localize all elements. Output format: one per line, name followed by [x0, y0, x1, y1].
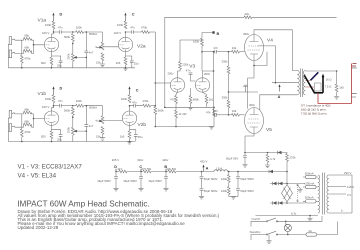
svg-text:Standby: Standby	[250, 230, 262, 234]
wire mix to V3 grid	[155, 82, 170, 84]
resistor 68k (jack1 grid)	[24, 37, 32, 40]
capacitor 25u (V2b cathode)	[134, 135, 138, 137]
tone stack node	[72, 31, 74, 33]
tube V1b	[44, 111, 58, 125]
svg-text:100k: 100k	[117, 23, 124, 27]
ground (node D cap)	[113, 188, 118, 191]
capacitor 16uF 500V (node C)	[140, 171, 142, 173]
svg-text:100k: 100k	[45, 97, 52, 101]
svg-text:+250mA: +250mA	[304, 181, 315, 185]
svg-text:4.7k: 4.7k	[270, 157, 276, 161]
svg-text:50µF 50V: 50µF 50V	[226, 157, 238, 161]
svg-text:420v: 420v	[162, 158, 169, 162]
ground (volume ch1)	[100, 64, 105, 67]
diode D4	[279, 201, 283, 204]
svg-text:270 5W: 270 5W	[142, 167, 152, 171]
capacitor 25u (V1a cathode)	[59, 61, 63, 63]
wire bias line	[245, 153, 287, 154]
resistor 470k (ch1 mix)	[142, 31, 150, 34]
svg-text:16µF 500V: 16µF 500V	[123, 179, 137, 183]
fuse 250mA (winding 2)	[306, 185, 317, 188]
svg-text:50µF 500V: 50µF 500V	[240, 189, 254, 193]
wire V4 cathode	[248, 52, 267, 109]
ground bus 2	[155, 126, 214, 128]
svg-text:0 V: 0 V	[347, 193, 351, 197]
svg-text:200 V: 200 V	[114, 31, 121, 35]
thick black jack tip contact	[322, 77, 324, 93]
capacitor 50uF 500V (A upper)	[201, 172, 203, 177]
capacitor 47n (V2a coupling)	[132, 30, 134, 34]
svg-text:68k: 68k	[25, 119, 30, 123]
mains wire row1	[251, 216, 322, 227]
wire V2b plate	[129, 106, 131, 111]
resistor 2k2 (V3 cathode right)	[203, 92, 207, 95]
resistor 1k5 (V2a cathode)	[124, 57, 127, 65]
wire wiper to V2a grid	[96, 46, 118, 47]
svg-text:220k: 220k	[182, 63, 189, 67]
svg-text:160k: 160k	[221, 177, 228, 181]
resistor 100k (V3 plate right)	[201, 38, 204, 46]
black jack terminal marks	[352, 68, 357, 97]
svg-text:310v: 310v	[137, 158, 144, 162]
wire V1a plate	[52, 32, 54, 37]
capacitor 47n (to V4 grid)	[202, 51, 215, 53]
diode D1	[273, 182, 277, 185]
svg-text:V1 - V3: ECC83/12AX7: V1 - V3: ECC83/12AX7	[18, 164, 83, 171]
wire tone tap vertical	[78, 32, 87, 68]
svg-text:470k: 470k	[24, 57, 31, 61]
svg-text:A: A	[278, 95, 281, 99]
ground (bus2)	[209, 127, 214, 130]
speaker tap wire red 16ohm	[305, 79, 310, 81]
PT secondary tap 230V	[329, 175, 352, 213]
wire mix to V1b grid	[32, 114, 45, 127]
wire V2a plate	[125, 32, 127, 37]
svg-text:10k 5W: 10k 5W	[167, 167, 177, 171]
svg-text:V4 - V5: EL34: V4 - V5: EL34	[18, 172, 57, 179]
svg-text:6,3v: 6,3v	[291, 211, 297, 215]
resistor 100k (V1b plate)	[52, 95, 55, 103]
svg-text:560k: 560k	[64, 35, 71, 39]
potentiometer 500k (volume ch1)	[102, 32, 104, 42]
resistor 330k (V5 grid leak)	[228, 114, 230, 116]
V2b cathode network	[130, 125, 136, 134]
svg-text:270k: 270k	[290, 156, 297, 160]
ground (NFB divider)	[334, 97, 339, 100]
PT secondary tap 0V	[329, 193, 346, 195]
svg-text:V2a: V2a	[137, 44, 146, 50]
svg-text:25u: 25u	[138, 135, 143, 139]
resistor 470k (input leak)	[20, 55, 23, 63]
switch (mains on/off)	[266, 221, 267, 222]
svg-text:470k: 470k	[142, 99, 149, 103]
svg-text:100k: 100k	[76, 25, 83, 29]
tube V1a	[44, 37, 58, 51]
input jack J2	[9, 50, 15, 58]
power transformer PT	[318, 173, 329, 215]
wire V5 cathode to bias	[245, 134, 254, 153]
svg-text:500mA: 500mA	[305, 171, 314, 175]
svg-text:47n: 47n	[186, 69, 191, 73]
resistor 10k (chain B-A)	[168, 170, 176, 173]
wire HT chain	[116, 171, 287, 173]
ground (V3 cathode bus)	[188, 107, 193, 110]
wire mix to V1a grid	[32, 40, 45, 53]
PT bottom tap	[329, 212, 352, 214]
ground (heater)	[307, 219, 312, 222]
svg-text:330k: 330k	[222, 60, 229, 64]
wire tone tap vertical ch2	[78, 106, 87, 142]
speaker tap wire red 8ohm	[305, 86, 314, 88]
svg-text:260v: 260v	[204, 72, 211, 76]
tone node ch2	[72, 105, 74, 107]
diode D3	[273, 201, 277, 204]
resistor 68k (jack4 grid)	[24, 123, 32, 126]
node D arrow channel1	[53, 15, 55, 21]
svg-text:1k5: 1k5	[339, 86, 344, 90]
output transformer OT primary	[297, 69, 305, 98]
svg-text:160k: 160k	[221, 189, 228, 193]
svg-text:50µF 500V: 50µF 500V	[204, 189, 218, 193]
diode D2	[279, 182, 283, 185]
svg-text:460v: 460v	[249, 103, 256, 107]
svg-text:4n7: 4n7	[89, 50, 94, 54]
svg-text:200v: 200v	[168, 72, 175, 76]
wire jack1 tip	[15, 40, 24, 55]
svg-text:IMPACT 60W Amp Head Schematic.: IMPACT 60W Amp Head Schematic.	[17, 200, 150, 209]
ground (bias resistor)	[265, 165, 270, 168]
node A arrow (screen supply)	[279, 87, 281, 92]
resistor 100k (treble series)	[76, 31, 84, 34]
svg-text:D: D	[60, 86, 63, 90]
potentiometer 500k (volume ch2)	[102, 106, 104, 116]
svg-text:250k: 250k	[67, 127, 71, 134]
capacitor 50uF 500V (main filter lower)	[236, 189, 240, 191]
node B tick	[165, 169, 167, 172]
svg-text:22k: 22k	[245, 12, 250, 16]
ground tick (bias reference)	[243, 85, 248, 92]
wire V4 screen	[258, 46, 276, 83]
capacitor 25u (V1b cathode)	[59, 135, 63, 137]
junction row2	[287, 234, 289, 236]
resistor 68k (jack3 grid)	[24, 111, 32, 114]
wire earth drop	[268, 235, 270, 241]
svg-text:470: 470	[170, 97, 175, 101]
ground (volume ch2)	[100, 138, 105, 141]
svg-text:C: C	[136, 89, 139, 93]
resistor 470 (V3 cathode left)	[176, 92, 178, 95]
resistor 220k (V3 plate left)	[179, 62, 182, 70]
tube V3 (right half)	[195, 78, 209, 92]
svg-text:470k: 470k	[24, 130, 31, 134]
capacitor 4n7 (tone ch2)	[84, 125, 88, 127]
thick navy selector bar	[311, 72, 319, 80]
wiper arrow (volume ch2)	[99, 120, 103, 122]
resistor 100k (V2b plate)	[128, 95, 131, 103]
capacitor 47n (to V5 grid)	[215, 113, 217, 117]
svg-text:68k: 68k	[25, 107, 30, 111]
capacitor 47n (V1b coupling)	[54, 105, 60, 107]
svg-text:47n: 47n	[213, 46, 218, 50]
wire OT secondary top tap	[305, 71, 336, 84]
fuse 500mA (HT winding)	[306, 175, 317, 178]
ground (node C cap)	[138, 188, 143, 191]
svg-text:A: A	[206, 167, 209, 171]
svg-text:160 V: 160 V	[42, 105, 49, 109]
node A arrow with 430V	[201, 171, 203, 173]
resistor 680k (V3 tail)	[189, 96, 192, 104]
svg-text:47n: 47n	[132, 100, 137, 104]
potentiometer 250k (tone ch2)	[71, 127, 74, 135]
wire OT centre tap to A	[272, 82, 297, 84]
resistor 100k (V1a plate)	[52, 21, 55, 29]
resistor 22k (feedback)	[244, 16, 252, 19]
svg-text:820: 820	[41, 135, 46, 139]
svg-text:4n7: 4n7	[89, 124, 94, 128]
resistor 470k (ch2 mix)	[143, 104, 151, 107]
svg-text:500kA: 500kA	[89, 32, 97, 36]
diode (bias rectifier)	[278, 151, 282, 154]
svg-text:68k: 68k	[25, 34, 30, 38]
resistor 27k (chain C-B)	[143, 170, 151, 173]
node junction V3 plate right	[201, 51, 203, 53]
svg-text:1k 1W: 1k 1W	[179, 112, 187, 116]
heater winding 6.3v	[256, 215, 318, 217]
svg-text:500kA: 500kA	[89, 106, 97, 110]
resistor 560k (tone shunt ch2)	[71, 107, 74, 115]
svg-text:2A: 2A	[309, 229, 313, 233]
node C arrow channel2	[129, 89, 131, 95]
svg-text:680k: 680k	[193, 97, 200, 101]
resistor 330k (V4 grid leak)	[228, 51, 230, 53]
svg-text:100k: 100k	[45, 23, 52, 27]
wire tone mid ch2	[72, 115, 74, 127]
junction lamp feed	[285, 221, 287, 223]
wire jack sleeves to ground bus	[7, 44, 10, 68]
wire grid-leak mid to bias	[228, 91, 230, 93]
tube V4	[245, 35, 264, 61]
node C arrow channel1	[125, 15, 127, 21]
node junction ch2	[33, 118, 35, 120]
svg-text:47k: 47k	[206, 111, 211, 115]
ground bus channel2	[8, 141, 135, 143]
ground (ch2 bus end)	[127, 142, 132, 145]
resistor 100k (treble series ch2)	[76, 104, 84, 107]
svg-text:68k: 68k	[25, 46, 30, 50]
svg-text:1k5: 1k5	[120, 135, 125, 139]
mains wire row2	[251, 222, 338, 241]
resistor 10k (V5 grid stopper)	[232, 113, 240, 116]
capacitor 16uF 500V (node D)	[115, 171, 117, 173]
resistor 1k5 (V2b cathode)	[128, 131, 131, 139]
svg-text:7.5Ω @ 0k6 Ω prim.: 7.5Ω @ 0k6 Ω prim.	[301, 111, 328, 115]
wire V4 plate to OT top	[254, 30, 297, 71]
svg-text:2k2: 2k2	[209, 97, 214, 101]
thick black jack lever	[304, 75, 323, 93]
wire V1b plate	[52, 106, 54, 111]
ground (mains earth)	[266, 241, 271, 244]
node junction	[33, 44, 35, 46]
svg-text:10k: 10k	[232, 109, 237, 113]
wire jack sleeves to ground bus ch2	[7, 118, 10, 142]
node C tick	[140, 169, 142, 172]
fuse 500mA (winding 3)	[306, 200, 317, 203]
svg-text:250k: 250k	[67, 53, 71, 60]
ground (main filter)	[231, 197, 236, 200]
node B square	[212, 31, 214, 33]
ground (bias cap)	[242, 165, 247, 168]
svg-text:16µF 500V: 16µF 500V	[148, 179, 162, 183]
svg-text:115 V: 115 V	[347, 185, 354, 189]
svg-text:50µF 500V: 50µF 500V	[240, 177, 254, 181]
capacitor 47n (V1a coupling)	[54, 31, 60, 33]
wire V3 right plate riser	[203, 52, 214, 78]
node 200V label ch2	[129, 105, 131, 107]
input jack J1	[9, 37, 15, 45]
wire V5 plate to OT bottom	[260, 95, 298, 110]
wire HT to bridge	[286, 172, 288, 184]
tube V2b	[122, 111, 136, 125]
switch (standby)	[266, 234, 267, 235]
wire bleeder/filter ground	[229, 196, 238, 198]
input jack J4	[9, 124, 15, 132]
capacitor 25u (V2a cathode)	[130, 61, 134, 63]
svg-text:V5: V5	[266, 127, 272, 133]
ground (ch1 bus end)	[123, 68, 128, 71]
node D tick	[115, 169, 117, 172]
svg-text:25u: 25u	[57, 64, 62, 68]
svg-text:490v: 490v	[243, 32, 250, 36]
wire rectifier upper	[270, 183, 305, 185]
pilot lamp	[286, 221, 288, 224]
capacitor 50uF 500V (A lower)	[200, 189, 204, 191]
resistor 560k (grid leak)	[154, 107, 157, 115]
capacitor 16uF 500V (node B)	[165, 171, 167, 173]
diode (HT rectifier out)	[269, 170, 273, 173]
V2a cathode network	[126, 52, 132, 61]
svg-text:100k: 100k	[76, 99, 83, 103]
svg-text:205 V: 205 V	[112, 158, 119, 162]
svg-text:47n: 47n	[213, 109, 218, 113]
choke 1.5H	[214, 170, 228, 172]
tube V2a	[118, 37, 132, 51]
svg-text:430 V: 430 V	[200, 160, 207, 164]
gray jack sleeve box	[314, 83, 321, 91]
svg-text:D: D	[60, 13, 63, 17]
red jack terminal upper	[352, 64, 357, 67]
resistor 160k (bleeder upper)	[228, 172, 230, 175]
svg-text:330k: 330k	[222, 95, 229, 99]
capacitor 50uF 50V (bias)	[244, 153, 246, 156]
svg-text:Updated 2002-12-28: Updated 2002-12-28	[18, 225, 59, 230]
resistor 100k (V2a plate)	[124, 21, 127, 29]
svg-text:1k5: 1k5	[116, 61, 121, 65]
svg-text:4k7: 4k7	[118, 167, 123, 171]
svg-text:7.5 Ω: 7.5 Ω	[325, 85, 332, 89]
resistor 470k (input leak ch2)	[20, 129, 23, 137]
ground (winding 2)	[297, 190, 302, 193]
svg-text:47n: 47n	[130, 25, 135, 29]
svg-text:25u: 25u	[57, 137, 62, 141]
resistor 270k (bias feed)	[286, 154, 289, 162]
svg-text:47n: 47n	[58, 99, 63, 103]
svg-text:470k: 470k	[141, 25, 148, 29]
V3 cathode bus	[165, 106, 214, 108]
wire jack tips ch2	[15, 114, 24, 129]
resistor 820 (V1b cathode)	[50, 131, 53, 139]
svg-text:560k: 560k	[64, 109, 71, 113]
capacitor 4n7 (tone)	[84, 51, 88, 53]
red wire speaker return	[318, 64, 352, 104]
svg-text:50µF 500V: 50µF 500V	[204, 177, 218, 181]
svg-text:25u: 25u	[134, 61, 139, 65]
potentiometer 250k (tone)	[71, 54, 74, 62]
svg-text:47n: 47n	[58, 25, 63, 29]
svg-text:1.5 H: 1.5 H	[216, 166, 223, 170]
svg-text:160 V: 160 V	[42, 31, 49, 35]
svg-text:500mA: 500mA	[305, 196, 314, 200]
resistor 47k (PI tail)	[213, 107, 215, 109]
svg-text:16 Ω: 16 Ω	[326, 77, 332, 81]
svg-text:820: 820	[41, 61, 46, 65]
svg-text:B: B	[217, 32, 220, 36]
capacitor 47n (PI input coupling)	[189, 73, 193, 75]
wire B to plate resistor	[202, 33, 212, 39]
input jack J3	[9, 110, 15, 118]
resistor 15k (volume tail ch2)	[101, 127, 104, 135]
wire V3 right output riser to V5 grid line	[214, 71, 215, 115]
ground (A caps)	[199, 196, 204, 199]
NFB wire (top line from output)	[165, 17, 337, 107]
resistor 160k (bleeder lower)	[227, 187, 230, 195]
resistor 15k (volume tail)	[101, 53, 104, 61]
V1a cathode network: resistor 820 + capacitor 25u	[52, 52, 61, 61]
capacitor 50uF 500V (main filter upper)	[237, 172, 239, 177]
fuse 2A (mains)	[306, 233, 317, 236]
svg-text:560k: 560k	[158, 109, 165, 113]
svg-text:V4: V4	[267, 38, 273, 44]
wire tone mid	[72, 42, 74, 54]
voltage selector switch	[297, 185, 299, 201]
PT secondary tap 115V	[329, 185, 346, 187]
ground (node B cap)	[163, 188, 168, 191]
resistor 1k 1W (bus tie)	[175, 107, 177, 110]
resistor 68k (jack2 grid)	[24, 49, 32, 52]
svg-text:V2b: V2b	[138, 122, 147, 128]
ground bus channel1	[8, 67, 135, 69]
capacitor 47n (V2b coupling)	[134, 104, 136, 108]
wiper arrow (volume ch1)	[99, 46, 103, 48]
svg-text:On/off: On/off	[252, 217, 260, 221]
resistor 10k (V4 grid stopper)	[232, 50, 240, 53]
resistor 1k5 (NFB divider)	[335, 84, 338, 92]
resistor 560k (tone shunt)	[71, 34, 74, 42]
wire rectifier lower	[270, 202, 305, 204]
svg-text:C: C	[132, 13, 135, 17]
svg-text:230 V: 230 V	[344, 171, 351, 175]
node D arrow channel2	[53, 89, 55, 95]
resistor 820 (V1a cathode)	[50, 57, 53, 65]
tube V5	[245, 108, 264, 134]
wire mix vertical	[154, 32, 156, 107]
tube V3 (left half)	[170, 78, 184, 92]
wire heater ground drop	[309, 216, 311, 219]
svg-text:100k: 100k	[121, 97, 128, 101]
wire wiper to V2b grid	[96, 120, 122, 121]
wire B branch to left plate	[180, 40, 202, 62]
resistor 4k7 (bias)	[267, 152, 269, 154]
bridge diamond	[282, 185, 293, 202]
